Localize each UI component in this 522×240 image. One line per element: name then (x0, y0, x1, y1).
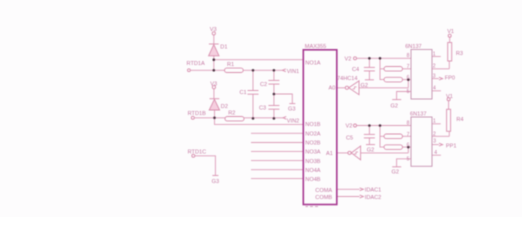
svg-text:1: 1 (433, 51, 436, 57)
svg-text:G2: G2 (392, 170, 399, 176)
svg-text:G3: G3 (288, 107, 295, 113)
svg-text:3: 3 (433, 74, 436, 80)
svg-text:R2: R2 (228, 111, 235, 117)
svg-text:D2: D2 (221, 104, 228, 110)
svg-text:V2: V2 (345, 56, 352, 62)
svg-text:V3: V3 (210, 82, 217, 88)
svg-text:7: 7 (407, 64, 410, 70)
svg-text:R3: R3 (456, 51, 463, 57)
svg-text:G2: G2 (367, 147, 374, 153)
svg-text:6: 6 (407, 142, 410, 148)
svg-text:R1: R1 (227, 62, 234, 68)
svg-text:V2: V2 (346, 124, 353, 130)
svg-text:IDAC2: IDAC2 (365, 195, 381, 201)
svg-text:4: 4 (433, 85, 436, 91)
svg-text:VIN1: VIN1 (287, 69, 299, 75)
svg-text:V3: V3 (210, 27, 217, 33)
svg-text:FP0: FP0 (445, 75, 455, 81)
svg-text:3: 3 (433, 138, 436, 144)
svg-text:G2: G2 (391, 104, 398, 110)
svg-text:NO1A: NO1A (305, 61, 321, 67)
svg-text:V1: V1 (446, 94, 453, 100)
svg-text:6N137: 6N137 (405, 44, 421, 50)
svg-text:2: 2 (433, 64, 436, 70)
svg-text:COMB: COMB (315, 195, 332, 201)
svg-text:4: 4 (434, 150, 437, 156)
svg-text:NO1B: NO1B (305, 122, 321, 128)
svg-text:COMA: COMA (315, 188, 332, 194)
svg-text:6N137: 6N137 (410, 112, 426, 118)
svg-text:1: 1 (433, 119, 436, 125)
svg-text:NO2A: NO2A (305, 131, 321, 137)
svg-text:G2: G2 (361, 83, 368, 89)
svg-text:PP1: PP1 (446, 144, 457, 150)
svg-text:VIN2: VIN2 (287, 118, 299, 124)
svg-text:A1: A1 (326, 151, 333, 157)
svg-text:5: 5 (407, 156, 410, 162)
svg-text:RTD1B: RTD1B (188, 111, 207, 117)
svg-text:V1: V1 (447, 29, 454, 35)
svg-text:8: 8 (407, 53, 410, 59)
svg-text:7: 7 (407, 132, 410, 138)
svg-text:C5: C5 (346, 136, 353, 142)
svg-text:NO3A: NO3A (305, 150, 321, 156)
svg-text:5: 5 (407, 89, 410, 95)
svg-text:C4: C4 (352, 67, 359, 73)
svg-text:74HC14: 74HC14 (337, 76, 358, 82)
svg-text:NO3B: NO3B (305, 159, 321, 165)
svg-text:G3: G3 (212, 179, 219, 185)
svg-text:NO2B: NO2B (305, 141, 321, 147)
svg-text:IDAC1: IDAC1 (365, 188, 381, 194)
svg-text:NO4A: NO4A (305, 168, 321, 174)
svg-text:R4: R4 (456, 117, 463, 123)
svg-text:C3: C3 (259, 106, 266, 112)
svg-text:6: 6 (407, 75, 410, 81)
svg-text:MAX355: MAX355 (305, 44, 326, 50)
svg-text:RTD1A: RTD1A (187, 61, 206, 67)
svg-text:A0: A0 (329, 86, 336, 92)
svg-text:C1: C1 (240, 90, 247, 96)
svg-text:C2: C2 (260, 82, 267, 88)
svg-text:D1: D1 (220, 44, 227, 50)
svg-text:8: 8 (407, 121, 410, 127)
svg-text:2: 2 (433, 131, 436, 137)
svg-text:RTD1C: RTD1C (188, 149, 207, 155)
svg-text:NO4B: NO4B (305, 177, 321, 183)
